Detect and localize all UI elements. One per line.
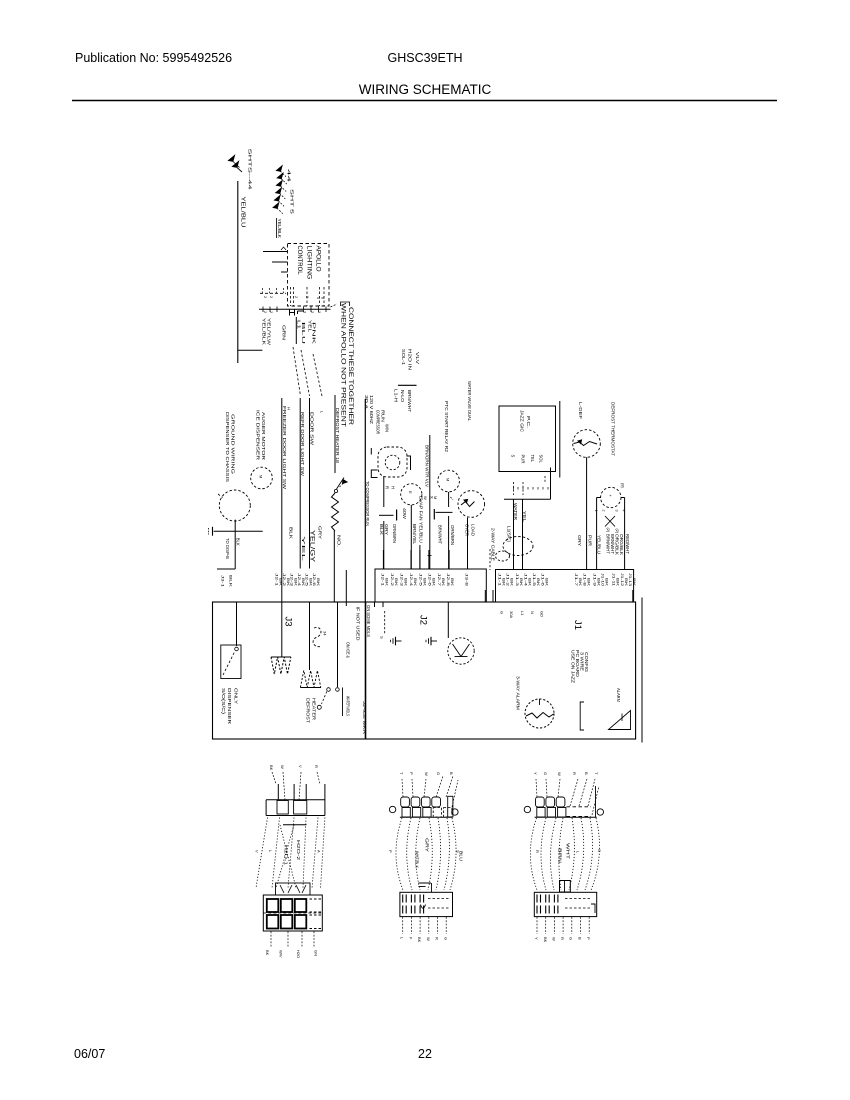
svg-text:BK: BK <box>423 578 427 587</box>
dashed connector row <box>260 292 286 294</box>
svg-text:J2-6: J2-6 <box>312 573 316 586</box>
svg-text:DISPENSER TO CHASSIS: DISPENSER TO CHASSIS <box>225 412 230 482</box>
P4 leader lines bottom <box>402 917 404 934</box>
compressor terminal bracket right <box>407 456 411 470</box>
svg-text:DEFROST HEATER 18: DEFROST HEATER 18 <box>335 408 340 464</box>
svg-text:BK: BK <box>278 578 282 587</box>
wire to run capacitor <box>383 476 385 507</box>
connector P3 right ear <box>452 809 458 815</box>
svg-text:B: B <box>449 772 454 775</box>
harness fan-out wires P1 <box>256 818 268 889</box>
svg-text:G: G <box>436 772 441 775</box>
svg-text:ORN/BRN: ORN/BRN <box>450 525 455 545</box>
connector P3 housing <box>400 816 453 818</box>
svg-text:VLV: VLV <box>415 352 420 364</box>
condenser fan motor M5 (dashed circle) <box>601 487 621 507</box>
header rule <box>72 100 777 102</box>
svg-text:GRN: GRN <box>282 325 287 340</box>
svg-text:BK: BK <box>536 578 540 587</box>
chassis ground G1 <box>212 527 214 536</box>
svg-text:2: 2 <box>263 296 267 298</box>
svg-text:BK: BK <box>432 578 436 587</box>
svg-text:(2): (2) <box>606 528 610 533</box>
condenser/aux motor M4 (dashed circle) <box>438 470 460 492</box>
svg-text:W: W <box>424 772 429 776</box>
mullion heater element R4 <box>309 602 311 670</box>
wire to apollo pin 2 <box>272 261 288 263</box>
svg-text:BK: BK <box>316 578 320 587</box>
wire evap fan to J2 <box>410 505 412 569</box>
svg-text:BRN/ORN WTR VLV: BRN/ORN WTR VLV <box>425 445 430 487</box>
svg-text:H2O IN: H2O IN <box>408 349 413 370</box>
signal ground G3 <box>432 640 438 642</box>
svg-text:WATER VALVE DUAL: WATER VALVE DUAL <box>467 381 472 422</box>
svg-text:EVAP FAN YEL/BLU: EVAP FAN YEL/BLU <box>419 496 424 543</box>
wire to apollo pin 1 <box>263 251 288 253</box>
svg-text:BK: BK <box>269 765 274 771</box>
svg-text:BK: BK <box>404 578 408 587</box>
shield dashed wire <box>384 611 386 635</box>
svg-text:PUR: PUR <box>588 535 593 546</box>
svg-text:CONTROL: CONTROL <box>296 246 302 276</box>
svg-text:2: 2 <box>269 296 273 298</box>
capacitor C2 plates <box>433 509 435 520</box>
svg-text:R: R <box>535 850 540 853</box>
svg-text:S/O(S/C): S/O(S/C) <box>221 688 226 715</box>
svg-text:R: R <box>560 937 565 940</box>
label YEL/BLK overline <box>276 218 278 238</box>
svg-text:06/07: 06/07 <box>74 1047 105 1061</box>
svg-text:3 WIRE: 3 WIRE <box>580 652 585 671</box>
svg-text:L1(S/C): L1(S/C) <box>507 526 512 543</box>
svg-text:YEL/BLK: YEL/BLK <box>277 219 282 239</box>
wire door switch 2 <box>309 398 311 569</box>
svg-text:G: G <box>597 849 602 852</box>
svg-text:J1-3: J1-3 <box>515 573 519 586</box>
sheet arrow to SHT 4 <box>229 156 235 162</box>
svg-text:P.C.: P.C. <box>526 416 531 428</box>
P3 leader lines top <box>402 779 403 797</box>
svg-text:J1-7: J1-7 <box>574 573 578 586</box>
dispenser solenoid (dashed circle) <box>219 490 250 521</box>
svg-text:BLU: BLU <box>301 322 306 344</box>
svg-text:W: W <box>552 937 557 941</box>
svg-text:J2-3: J2-3 <box>290 573 294 586</box>
svg-text:PC BOARD: PC BOARD <box>575 650 580 677</box>
svg-text:DEFROST: DEFROST <box>306 698 311 724</box>
svg-text:ORG/BLK: ORG/BLK <box>619 534 624 555</box>
svg-text:G: G <box>569 937 574 940</box>
wire to apollo pin 3 <box>281 271 288 273</box>
svg-text:WATER: WATER <box>513 503 518 520</box>
svg-text:LIGHTING: LIGHTING <box>306 246 312 280</box>
svg-text:WHT: WHT <box>566 843 571 860</box>
wire stub left <box>238 349 262 351</box>
svg-text:CONNECT THESE TOGETHER: CONNECT THESE TOGETHER <box>347 307 353 426</box>
tee junction <box>419 882 432 884</box>
connector P2 housing <box>263 895 322 931</box>
svg-text:V: V <box>298 765 303 768</box>
wire stub J3 left <box>345 570 347 606</box>
svg-text:GROUND WIRING: GROUND WIRING <box>231 414 236 475</box>
svg-text:H2O-2: H2O-2 <box>296 840 301 861</box>
bracket <box>580 702 584 730</box>
svg-text:BK: BK <box>528 578 532 587</box>
svg-text:J1-11: J1-11 <box>612 573 616 586</box>
svg-text:TO COMPRESSOR RUN: TO COMPRESSOR RUN <box>365 481 370 526</box>
svg-text:BK: BK <box>413 578 417 587</box>
defrost termination switch <box>334 489 337 492</box>
svg-text:PTC START RELAY R2: PTC START RELAY R2 <box>444 401 449 453</box>
connector P3 left ear <box>389 806 395 812</box>
main board box outline <box>213 602 636 739</box>
wire dispenser to ground <box>234 520 236 569</box>
svg-text:ICE DISPENSER: ICE DISPENSER <box>256 410 261 460</box>
jazz pin number marks <box>513 487 515 490</box>
connector pins 1-2 <box>289 309 291 315</box>
svg-text:Y: Y <box>534 937 539 940</box>
svg-text:1: 1 <box>594 510 598 512</box>
svg-text:TEL: TEL <box>530 455 535 463</box>
svg-text:USE ON JAZZ: USE ON JAZZ <box>571 650 576 684</box>
svg-text:BK: BK <box>510 578 514 587</box>
svg-text:A: A <box>317 850 322 853</box>
svg-text:J1-5: J1-5 <box>532 573 536 586</box>
coil 34 <box>313 627 321 646</box>
svg-text:YEL/YLW: YEL/YLW <box>267 318 272 346</box>
svg-text:H: H <box>287 407 292 410</box>
svg-text:J2-4: J2-4 <box>297 573 301 586</box>
svg-text:34: 34 <box>323 631 328 636</box>
svg-text:J3-8: J3-8 <box>465 573 469 586</box>
svg-text:AUGER MOTOR: AUGER MOTOR <box>261 412 266 460</box>
svg-text:W/V: W/V <box>279 950 284 958</box>
connector P5 right ear <box>597 809 603 815</box>
svg-text:BK: BK <box>605 578 609 587</box>
svg-text:J1-4: J1-4 <box>524 573 528 586</box>
svg-text:2: 2 <box>263 311 267 313</box>
wire stub <box>295 317 297 344</box>
svg-text:J2-2: J2-2 <box>282 573 286 586</box>
svg-text:SHT 5: SHT 5 <box>290 189 295 215</box>
connector P5 housing <box>535 816 597 818</box>
svg-text:ONLY: ONLY <box>234 688 239 704</box>
condenser fan wires <box>597 497 601 499</box>
svg-text:DISPENSER: DISPENSER <box>227 688 232 724</box>
P2 leader lines bottom <box>270 932 272 949</box>
svg-text:3: 3 <box>317 311 321 313</box>
svg-text:L1: L1 <box>297 320 302 330</box>
dashed harness jumpers <box>293 347 301 396</box>
svg-text:R: R <box>385 486 390 489</box>
svg-text:HEATER: HEATER <box>312 698 317 720</box>
svg-text:J2-1: J2-1 <box>381 573 385 586</box>
svg-text:BK: BK <box>543 937 548 943</box>
svg-text:BRN/YEL: BRN/YEL <box>412 524 417 545</box>
svg-text:2: 2 <box>602 510 606 512</box>
svg-text:GRY: GRY <box>384 524 389 535</box>
svg-text:ON ICE &: ON ICE & <box>346 642 351 658</box>
svg-text:M: M <box>433 496 438 499</box>
dashed wire into J1 strip <box>489 549 491 570</box>
svg-text:J2-7: J2-7 <box>437 573 441 586</box>
svg-text:J2-5: J2-5 <box>305 573 309 586</box>
svg-text:G: G <box>444 937 449 940</box>
svg-text:BK: BK <box>417 937 422 943</box>
wire stub YEL/BLU <box>419 545 421 569</box>
wire water valve BRN/ORN <box>429 435 431 569</box>
svg-text:J1-10: J1-10 <box>601 573 605 586</box>
tick <box>428 555 432 557</box>
svg-text:J2-1: J2-1 <box>275 573 279 586</box>
wire overload to J3-8 <box>467 518 469 570</box>
svg-text:G: G <box>543 772 548 775</box>
svg-text:W: W <box>423 496 428 500</box>
connector P2 key <box>276 883 311 895</box>
svg-text:8: 8 <box>321 297 325 299</box>
svg-text:BK: BK <box>450 578 454 587</box>
jazz pin row line <box>504 498 551 500</box>
wires in strip zone <box>484 590 486 602</box>
svg-text:3-WAY ALARM: 3-WAY ALARM <box>516 676 521 711</box>
svg-text:ORN/BRN: ORN/BRN <box>392 524 397 543</box>
svg-text:BRN: BRN <box>558 848 563 863</box>
svg-text:YEL: YEL <box>301 536 306 563</box>
svg-text:J1: J1 <box>572 620 583 630</box>
svg-text:J2-5: J2-5 <box>419 573 423 586</box>
svg-text:M: M <box>446 478 451 481</box>
svg-text:W: W <box>280 765 285 769</box>
svg-text:BK: BK <box>519 578 523 587</box>
svg-text:J1-9: J1-9 <box>593 573 597 586</box>
svg-text:J1-6: J1-6 <box>541 573 545 586</box>
P1 latch bar <box>283 824 307 826</box>
svg-text:GRY: GRY <box>318 526 323 539</box>
svg-text:N-LO: N-LO <box>400 390 405 403</box>
leader to note <box>331 304 338 307</box>
svg-text:L1: L1 <box>520 611 525 616</box>
svg-text:L-DEF: L-DEF <box>578 402 583 420</box>
svg-text:H2O-1: H2O-1 <box>284 845 289 866</box>
P5 leader lines top <box>536 779 537 797</box>
wire stubs into J2 <box>374 602 376 607</box>
svg-text:BK: BK <box>286 578 290 587</box>
svg-text:NO.: NO. <box>337 535 342 547</box>
inline component block <box>560 881 571 893</box>
svg-text:J1-2: J1-2 <box>506 573 510 586</box>
svg-text:SHTS--44: SHTS--44 <box>248 149 253 191</box>
svg-text:L1-H: L1-H <box>394 389 399 402</box>
svg-text:TO DISP-B: TO DISP-B <box>225 538 230 559</box>
svg-text:J2-6: J2-6 <box>428 573 432 586</box>
svg-text:YEL/BLU: YEL/BLU <box>240 197 246 228</box>
right rail line <box>641 598 643 743</box>
wire refr door switch <box>299 398 301 569</box>
svg-text:WIN: WIN <box>385 424 390 432</box>
evaporator fan motor M3 (dashed circle) <box>401 484 422 505</box>
terminal strip J1 (right) <box>496 570 634 603</box>
connector P5 left ear <box>524 806 530 812</box>
svg-text:SOL: SOL <box>539 455 544 464</box>
svg-text:BK: BK <box>265 950 270 956</box>
svg-text:COMPRESSOR: COMPRESSOR <box>376 410 381 434</box>
wire water valve 2 <box>522 499 524 570</box>
svg-text:WIRING SCHEMATIC: WIRING SCHEMATIC <box>359 82 492 97</box>
wire thermostat to J1 <box>586 457 588 569</box>
defrost switch S3 <box>337 602 339 687</box>
svg-text:JAZZ GIC: JAZZ GIC <box>520 410 525 433</box>
wires into strip J2 <box>382 550 384 569</box>
svg-text:RED/WHT: RED/WHT <box>625 534 630 554</box>
svg-text:2: 2 <box>305 296 309 298</box>
audio transducer LS1 (dashed circle) <box>448 638 474 664</box>
svg-text:BK: BK <box>502 578 506 587</box>
connector P1 pins <box>277 784 279 800</box>
svg-text:ORG/BLK: ORG/BLK <box>615 534 620 555</box>
connector row line <box>259 308 331 310</box>
svg-text:H2O: H2O <box>296 950 301 958</box>
control board JAZZ PC (box) <box>499 406 556 472</box>
separator line <box>398 384 417 386</box>
svg-text:B: B <box>584 772 589 775</box>
svg-text:BK: BK <box>587 578 591 587</box>
power rail L1 <box>364 399 366 739</box>
svg-text:GRY: GRY <box>425 838 430 852</box>
svg-text:30 A: 30 A <box>364 395 369 409</box>
svg-text:YEL/BLU: YEL/BLU <box>597 535 602 554</box>
svg-text:22: 22 <box>418 1047 432 1061</box>
svg-text:R: R <box>572 772 577 775</box>
svg-text:APOLLO: APOLLO <box>315 246 321 272</box>
svg-text:30A: 30A <box>509 611 514 618</box>
svg-text:BK: BK <box>293 578 297 587</box>
wire motor to capacitor <box>448 492 450 507</box>
svg-text:Publication No: 5995492526: Publication No: 5995492526 <box>75 51 232 65</box>
svg-text:Y: Y <box>533 772 538 775</box>
terminal strip J2 (left) <box>375 569 486 602</box>
cable bundle ellipse <box>503 537 533 556</box>
connector P1 housing top <box>266 799 325 801</box>
compressor M2 (dashed outline) <box>378 447 407 477</box>
svg-text:RUN: RUN <box>381 410 386 422</box>
wire freezer door switch BRN <box>281 398 283 602</box>
svg-text:P: P <box>388 850 393 853</box>
svg-text:IF NOT USED: IF NOT USED <box>356 607 361 641</box>
svg-text:N: N <box>530 611 535 614</box>
connector P4 housing <box>400 892 453 916</box>
freezer heater element R3 <box>281 602 283 657</box>
svg-text:GRY: GRY <box>577 535 582 546</box>
harness fan-out wires P3 <box>396 818 403 890</box>
svg-text:BK: BK <box>632 578 636 587</box>
svg-text:J2-3: J2-3 <box>400 573 404 586</box>
svg-text:BK: BK <box>301 578 305 587</box>
crossed wires X <box>605 516 615 527</box>
svg-text:G: G <box>500 611 505 614</box>
defrost thermostat S1 (dashed circle) <box>573 430 601 458</box>
wire cap to terminal <box>448 516 450 569</box>
svg-text:BLU: BLU <box>459 851 464 861</box>
svg-text:BK: BK <box>578 578 582 587</box>
svg-text:J1-12: J1-12 <box>620 573 624 586</box>
svg-text:S: S <box>380 636 385 639</box>
svg-text:J2: J2 <box>418 615 429 625</box>
svg-text:GN: GN <box>314 950 319 956</box>
svg-text:BK: BK <box>394 578 398 587</box>
svg-text:ON SOME MDLS: ON SOME MDLS <box>366 605 371 637</box>
svg-text:WHT/BLK: WHT/BLK <box>415 851 420 868</box>
svg-text:S: S <box>511 455 516 458</box>
svg-text:BK: BK <box>308 578 312 587</box>
svg-text:BLK: BLK <box>289 527 294 539</box>
dispenser cam switch S2 <box>235 647 239 651</box>
alarm horn symbol <box>609 711 631 730</box>
wire into J3 <box>217 568 235 570</box>
svg-text:BK: BK <box>616 578 620 587</box>
svg-text:J2-2: J2-2 <box>390 573 394 586</box>
svg-text:3: 3 <box>615 510 619 512</box>
svg-text:5: 5 <box>316 297 320 299</box>
svg-text:BK: BK <box>441 578 445 587</box>
svg-text:BRN/WHT: BRN/WHT <box>610 534 615 554</box>
divider J3|J2 <box>365 602 367 739</box>
svg-text:SOL-1: SOL-1 <box>401 349 406 366</box>
P6 leader lines bottom <box>536 917 538 934</box>
svg-text:J2-ICE MKR: J2-ICE MKR <box>362 701 367 734</box>
defrost heater element R1 (zigzag) <box>332 493 339 531</box>
svg-text:BK: BK <box>385 578 389 587</box>
svg-text:M: M <box>259 475 264 478</box>
P1 leader lines <box>272 772 276 784</box>
svg-text:BK: BK <box>545 578 549 587</box>
svg-text:V: V <box>255 850 260 853</box>
svg-text:BLK: BLK <box>379 524 384 535</box>
svg-text:2-WAY CABLE: 2-WAY CABLE <box>491 528 496 561</box>
wire defrost heater feed <box>334 395 336 473</box>
svg-text:GD: GD <box>540 611 545 617</box>
run capacitor C1 plates <box>379 514 394 516</box>
svg-text:P: P <box>586 937 591 940</box>
svg-text:CONFIG: CONFIG <box>584 652 589 672</box>
svg-text:DEFROST THERMOSTAT: DEFROST THERMOSTAT <box>611 402 616 456</box>
svg-text:BRN/WHT: BRN/WHT <box>407 390 412 412</box>
svg-text:YEL/BLK: YEL/BLK <box>262 318 267 345</box>
svg-text:BLK: BLK <box>229 575 234 588</box>
svg-text:PNK: PNK <box>312 322 317 344</box>
signal ground G2 <box>396 640 402 642</box>
svg-text:J2-8: J2-8 <box>446 573 450 586</box>
svg-text:GHSC39ETH: GHSC39ETH <box>387 51 462 65</box>
svg-text:PUR: PUR <box>521 455 526 464</box>
svg-text:J1-1: J1-1 <box>498 573 502 586</box>
svg-text:W: W <box>426 937 431 941</box>
compressor terminal bracket left <box>371 470 377 478</box>
harness fan-out wires P5 <box>530 818 537 890</box>
svg-text:B: B <box>578 937 583 940</box>
control box APOLLO LIGHTING CONTROL (dashed) <box>288 244 330 307</box>
wire run cap to terminal <box>383 521 385 569</box>
svg-text:WATER MDLS: WATER MDLS <box>346 696 351 716</box>
svg-text:E: E <box>408 491 413 494</box>
svg-text:2: 2 <box>294 296 298 298</box>
svg-text:BLK: BLK <box>235 538 240 546</box>
apollo pin stubs <box>290 287 292 306</box>
connector P6 housing <box>534 892 596 916</box>
wire to transducer <box>447 602 449 638</box>
svg-text:R: R <box>435 937 440 940</box>
wire to cam switch <box>236 602 238 646</box>
wire L1 YEL/BLU vertical feed <box>237 181 239 363</box>
